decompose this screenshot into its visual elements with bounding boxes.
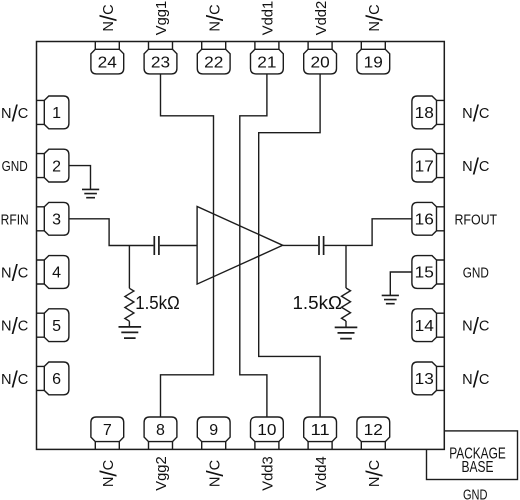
pin 1 (N/C) bbox=[37, 96, 69, 129]
pin 14 (N/C) bbox=[412, 309, 444, 342]
svg-text:17: 17 bbox=[415, 158, 434, 175]
svg-text:7: 7 bbox=[103, 422, 112, 439]
svg-text:6: 6 bbox=[52, 371, 61, 388]
pin 13 (N/C) bbox=[412, 362, 444, 395]
svg-text:4: 4 bbox=[52, 265, 61, 282]
svg-text:18: 18 bbox=[415, 105, 434, 122]
svg-text:1: 1 bbox=[52, 105, 61, 122]
svg-text:14: 14 bbox=[415, 318, 434, 335]
svg-text:N/C: N/C bbox=[462, 100, 489, 126]
pin 8 (Vgg2) bbox=[144, 417, 177, 449]
svg-text:GND: GND bbox=[463, 265, 489, 282]
pin 5 (N/C) bbox=[37, 309, 69, 342]
wire resistor R2 to ground bbox=[345, 321, 347, 327]
svg-text:22: 22 bbox=[204, 54, 223, 71]
svg-text:16: 16 bbox=[415, 212, 434, 229]
wire output capacitor to RFOUT pin16 bbox=[325, 219, 412, 246]
wire node A to resistor R1 bbox=[128, 246, 130, 289]
pin 24 (N/C) bbox=[91, 42, 124, 74]
pin 15 (GND) bbox=[412, 256, 444, 289]
svg-text:19: 19 bbox=[364, 54, 383, 71]
svg-text:RFIN: RFIN bbox=[1, 211, 29, 228]
svg-text:Vdd4: Vdd4 bbox=[313, 456, 330, 491]
pin 17 (N/C) bbox=[412, 149, 444, 182]
svg-text:10: 10 bbox=[257, 422, 276, 439]
svg-text:GND: GND bbox=[2, 158, 28, 175]
svg-text:24: 24 bbox=[98, 54, 117, 71]
svg-text:13: 13 bbox=[415, 371, 434, 388]
svg-text:Vgg1: Vgg1 bbox=[153, 1, 170, 36]
wire GND pin15 to ground bbox=[390, 272, 411, 295]
resistor R2 1.5k shunt bbox=[342, 288, 351, 321]
svg-text:RFOUT: RFOUT bbox=[454, 211, 497, 228]
pin 18 (N/C) bbox=[412, 96, 444, 129]
svg-text:GND: GND bbox=[463, 487, 488, 500]
svg-text:N/C: N/C bbox=[1, 260, 28, 286]
op-amp U1 (RF amplifier triangle) bbox=[197, 207, 283, 285]
ground below resistor R2 bbox=[335, 327, 358, 338]
svg-text:21: 21 bbox=[257, 54, 276, 71]
wire node B to resistor R2 bbox=[345, 245, 347, 288]
svg-text:Vgg2: Vgg2 bbox=[153, 456, 170, 491]
pin 2 (GND) bbox=[37, 149, 69, 182]
svg-text:N/C: N/C bbox=[1, 366, 28, 392]
ground below resistor R1 bbox=[119, 327, 142, 338]
svg-text:N/C: N/C bbox=[1, 313, 28, 339]
svg-text:N/C: N/C bbox=[462, 313, 489, 339]
pin 3 (RFIN) bbox=[37, 202, 69, 235]
svg-text:N/C: N/C bbox=[462, 366, 489, 392]
pin 19 (N/C) bbox=[357, 42, 390, 74]
svg-text:N/C: N/C bbox=[1, 100, 28, 126]
pin 16 (RFOUT) bbox=[412, 202, 444, 235]
wire Vgg1 pin23 to Vgg2 pin8 (gate bias) bbox=[161, 74, 214, 417]
svg-text:N/C: N/C bbox=[202, 4, 228, 31]
resistor R1 1.5k shunt bbox=[125, 288, 134, 321]
svg-text:23: 23 bbox=[151, 54, 170, 71]
ground at pin2 bbox=[82, 189, 99, 197]
pin 9 (N/C) bbox=[197, 417, 230, 449]
package outline bbox=[37, 42, 445, 450]
svg-text:2: 2 bbox=[52, 158, 61, 175]
svg-text:12: 12 bbox=[364, 422, 383, 439]
wire GND pin2 to ground bbox=[69, 166, 90, 190]
pin 6 (N/C) bbox=[37, 362, 69, 395]
svg-text:11: 11 bbox=[311, 422, 330, 439]
svg-text:N/C: N/C bbox=[462, 154, 489, 180]
capacitor C2 (output DC block) bbox=[319, 236, 324, 255]
pin 4 (N/C) bbox=[37, 256, 69, 289]
pin 21 (Vdd1) bbox=[251, 42, 284, 74]
capacitor C1 (input DC block) bbox=[154, 236, 159, 255]
ground at pin15 bbox=[382, 295, 399, 303]
pin 12 (N/C) bbox=[357, 417, 390, 449]
wire Vdd2 pin20 to Vdd4 pin11 (drain bias 2) bbox=[259, 74, 320, 417]
svg-text:9: 9 bbox=[209, 422, 218, 439]
svg-text:3: 3 bbox=[52, 212, 61, 229]
pin 10 (Vdd3) bbox=[251, 417, 284, 449]
wire resistor R1 to ground bbox=[128, 321, 130, 327]
svg-text:1.5kΩ: 1.5kΩ bbox=[293, 293, 343, 313]
svg-text:Vdd1: Vdd1 bbox=[260, 1, 277, 36]
svg-text:15: 15 bbox=[415, 265, 434, 282]
wire input capacitor to amplifier input bbox=[160, 245, 197, 247]
svg-text:20: 20 bbox=[311, 54, 330, 71]
svg-text:N/C: N/C bbox=[96, 4, 122, 31]
pin 7 (N/C) bbox=[91, 417, 124, 449]
svg-text:8: 8 bbox=[156, 422, 165, 439]
wire Vdd1 pin21 to Vdd3 pin10 (drain bias 1) bbox=[240, 74, 267, 417]
svg-text:Vdd3: Vdd3 bbox=[260, 456, 277, 491]
pin 11 (Vdd4) bbox=[304, 417, 337, 449]
wire amplifier output to output capacitor bbox=[283, 244, 318, 246]
package base (exposed pad) box bbox=[427, 431, 518, 480]
svg-text:BASE: BASE bbox=[462, 459, 494, 476]
svg-text:N/C: N/C bbox=[362, 4, 388, 31]
svg-text:N/C: N/C bbox=[362, 460, 388, 487]
wire RFIN pin3 to input capacitor bbox=[69, 219, 153, 246]
pin 23 (Vgg1) bbox=[144, 42, 177, 74]
svg-text:5: 5 bbox=[52, 318, 61, 335]
svg-text:Vdd2: Vdd2 bbox=[313, 1, 330, 36]
pin 20 (Vdd2) bbox=[304, 42, 337, 74]
pin 22 (N/C) bbox=[197, 42, 230, 74]
svg-text:N/C: N/C bbox=[202, 460, 228, 487]
svg-text:N/C: N/C bbox=[96, 460, 122, 487]
svg-text:1.5kΩ: 1.5kΩ bbox=[135, 293, 180, 313]
